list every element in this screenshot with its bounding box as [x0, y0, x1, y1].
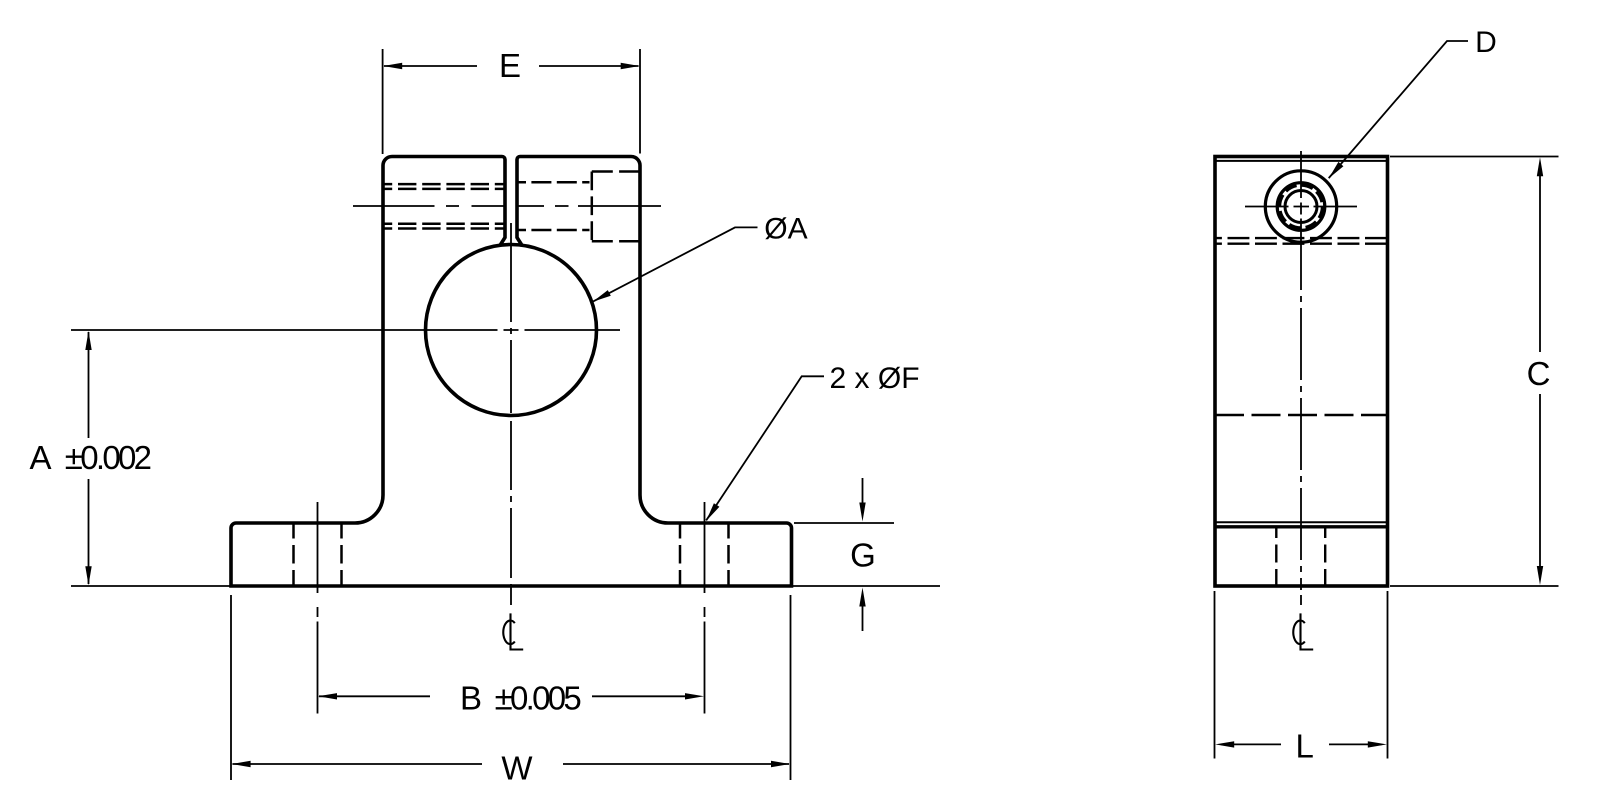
svg-text:B: B [460, 680, 482, 717]
svg-text:W: W [501, 750, 533, 787]
svg-text:L: L [1296, 728, 1314, 765]
svg-text:ØA: ØA [764, 213, 807, 246]
svg-text:±0.002: ±0.002 [65, 439, 151, 476]
svg-text:±0.005: ±0.005 [495, 680, 581, 717]
svg-text:G: G [850, 537, 876, 574]
svg-text:2 x ØF: 2 x ØF [830, 362, 920, 395]
svg-text:A: A [30, 439, 52, 476]
svg-text:C: C [1527, 355, 1551, 392]
svg-text:D: D [1475, 26, 1497, 59]
svg-text:E: E [499, 47, 521, 84]
